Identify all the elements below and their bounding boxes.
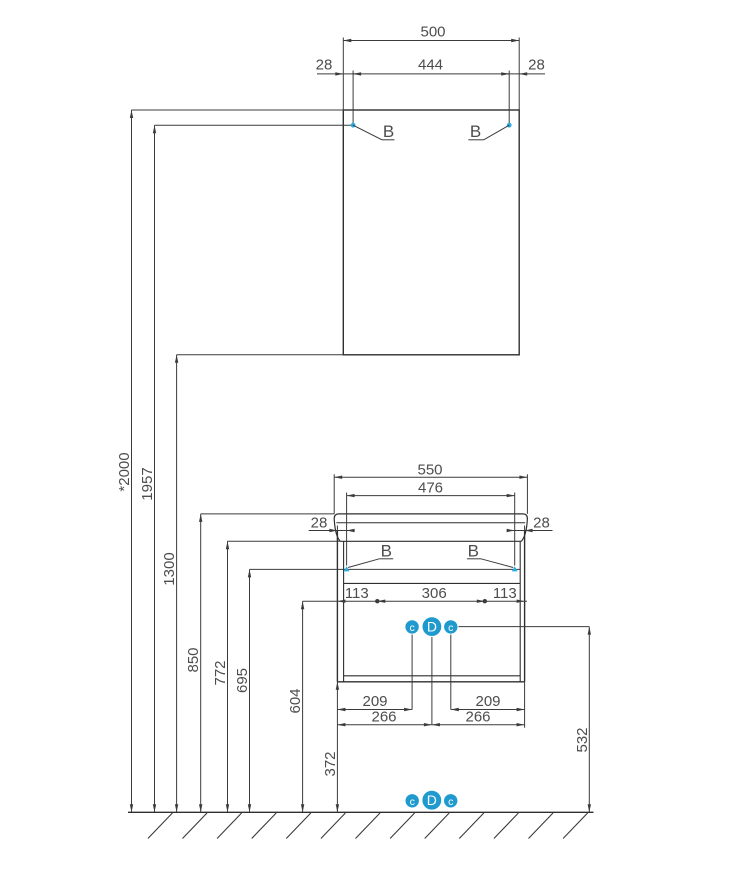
cabinet left inner wall [343,541,345,682]
floor line [128,811,594,813]
fixing point B dot right (mirror) [507,123,512,128]
fixing triangle right [512,566,518,571]
label B leader left (cabinet) [379,558,393,560]
svg-text:695: 695 [234,668,251,693]
cabinet bottom panel [337,681,524,683]
height dimension 372 line [336,682,338,813]
drawer top line [344,582,521,584]
svg-text:28: 28 [528,57,545,74]
svg-text:266: 266 [371,708,396,725]
svg-text:604: 604 [287,688,304,713]
svg-text:1957: 1957 [139,467,156,500]
dimension 266 left line [337,724,432,726]
drain stub D lead [431,636,433,725]
connector line 850 to washbasin top [201,513,335,515]
svg-text:*2000: *2000 [116,452,133,491]
height dimension 604 line [302,601,304,812]
floor hatching [148,813,588,839]
circle c left (floor) [405,794,419,808]
extension line above mirror left edge [342,38,344,111]
svg-text:B: B [381,542,392,561]
svg-text:28: 28 [311,515,328,532]
svg-text:372: 372 [322,751,339,776]
fixing dot right [483,599,487,603]
drain stub right c lead [450,634,452,710]
dimension 28 left (cabinet) line [309,530,355,532]
extension line 476 left [346,493,348,566]
fixing line through triangles / connector 695 [250,568,521,570]
svg-text:772: 772 [212,660,229,685]
dimension 209 left line [337,709,412,711]
svg-text:B: B [383,122,394,141]
drawer bottom line [344,675,521,677]
mirror fixing extension left [352,71,354,126]
washbasin bottom rim line [340,540,521,542]
svg-text:1300: 1300 [161,552,178,585]
drain stub left c lead [411,634,413,710]
circle c left (wall) [405,620,419,634]
dimension 28 right (cabinet) line [507,530,553,532]
svg-text:476: 476 [418,480,443,497]
svg-text:B: B [468,542,479,561]
svg-text:444: 444 [418,57,443,74]
svg-text:532: 532 [574,727,591,752]
dimension 209 right line [451,709,525,711]
connector line *2000 to mirror top [132,109,344,111]
svg-text:28: 28 [533,515,550,532]
svg-text:306: 306 [422,585,447,602]
svg-text:c: c [448,796,453,808]
connector line 772 to washbasin rim bottom [228,540,341,542]
cabinet right outer wall [524,531,526,682]
dimension 113-306-113 line / connector 604 [303,600,527,602]
fixing point B dot left (mirror) [351,123,356,128]
dimension 266 right line [432,724,525,726]
cabinet left outer wall [336,531,338,682]
extension line above mirror right edge [518,38,520,111]
svg-text:850: 850 [185,647,202,672]
connector line 1300 to mirror bottom [177,354,344,356]
svg-text:113: 113 [493,585,517,602]
svg-text:D: D [427,619,437,635]
label B leader right (mirror) [484,125,510,140]
circle c right (wall) [444,620,458,634]
dimension 476 line [347,495,515,497]
washbasin right edge taper [521,519,527,542]
svg-text:500: 500 [420,24,445,41]
extension line 550 left / dimension 550 [333,474,335,514]
svg-text:D: D [427,792,437,808]
mirror fixing extension right [508,71,510,126]
svg-text:28: 28 [316,57,333,74]
svg-text:c: c [410,796,415,808]
svg-text:B: B [470,122,481,141]
height dimension 1300 line [176,355,178,813]
washbasin inner rim line [336,522,525,524]
svg-text:550: 550 [417,461,442,478]
washbasin top outline [334,514,527,519]
circle c right (floor) [444,794,458,808]
height dimension 695 line [249,569,251,812]
extension line right cabinet edge below [524,682,526,728]
label B leader right (cabinet) [467,558,481,560]
height dimension 1957 line [154,125,156,812]
dimension 500 line [343,40,519,42]
mirror cabinet outline [343,110,519,355]
connector line 1957 to fixing point B [155,124,354,126]
cabinet right inner wall [519,541,521,682]
height dimension 532 line [588,627,590,813]
circle D (wall) [422,617,442,637]
svg-text:c: c [409,622,414,634]
height dimension 850 line [200,514,202,812]
circle D (floor) [422,790,442,810]
label B leader left (mirror) [353,125,382,140]
washbasin left edge taper [334,519,340,542]
svg-text:266: 266 [465,708,490,725]
extension line 476 right [514,493,516,566]
fixing dot left [375,599,379,603]
svg-text:113: 113 [345,585,369,602]
height dimension *2000 line [131,110,133,812]
dimension 444/28 line [317,73,361,75]
svg-text:c: c [448,622,453,634]
fixing triangle left [344,566,350,571]
height dimension 772 line [227,541,229,812]
connector line 532 to circles [458,626,590,628]
